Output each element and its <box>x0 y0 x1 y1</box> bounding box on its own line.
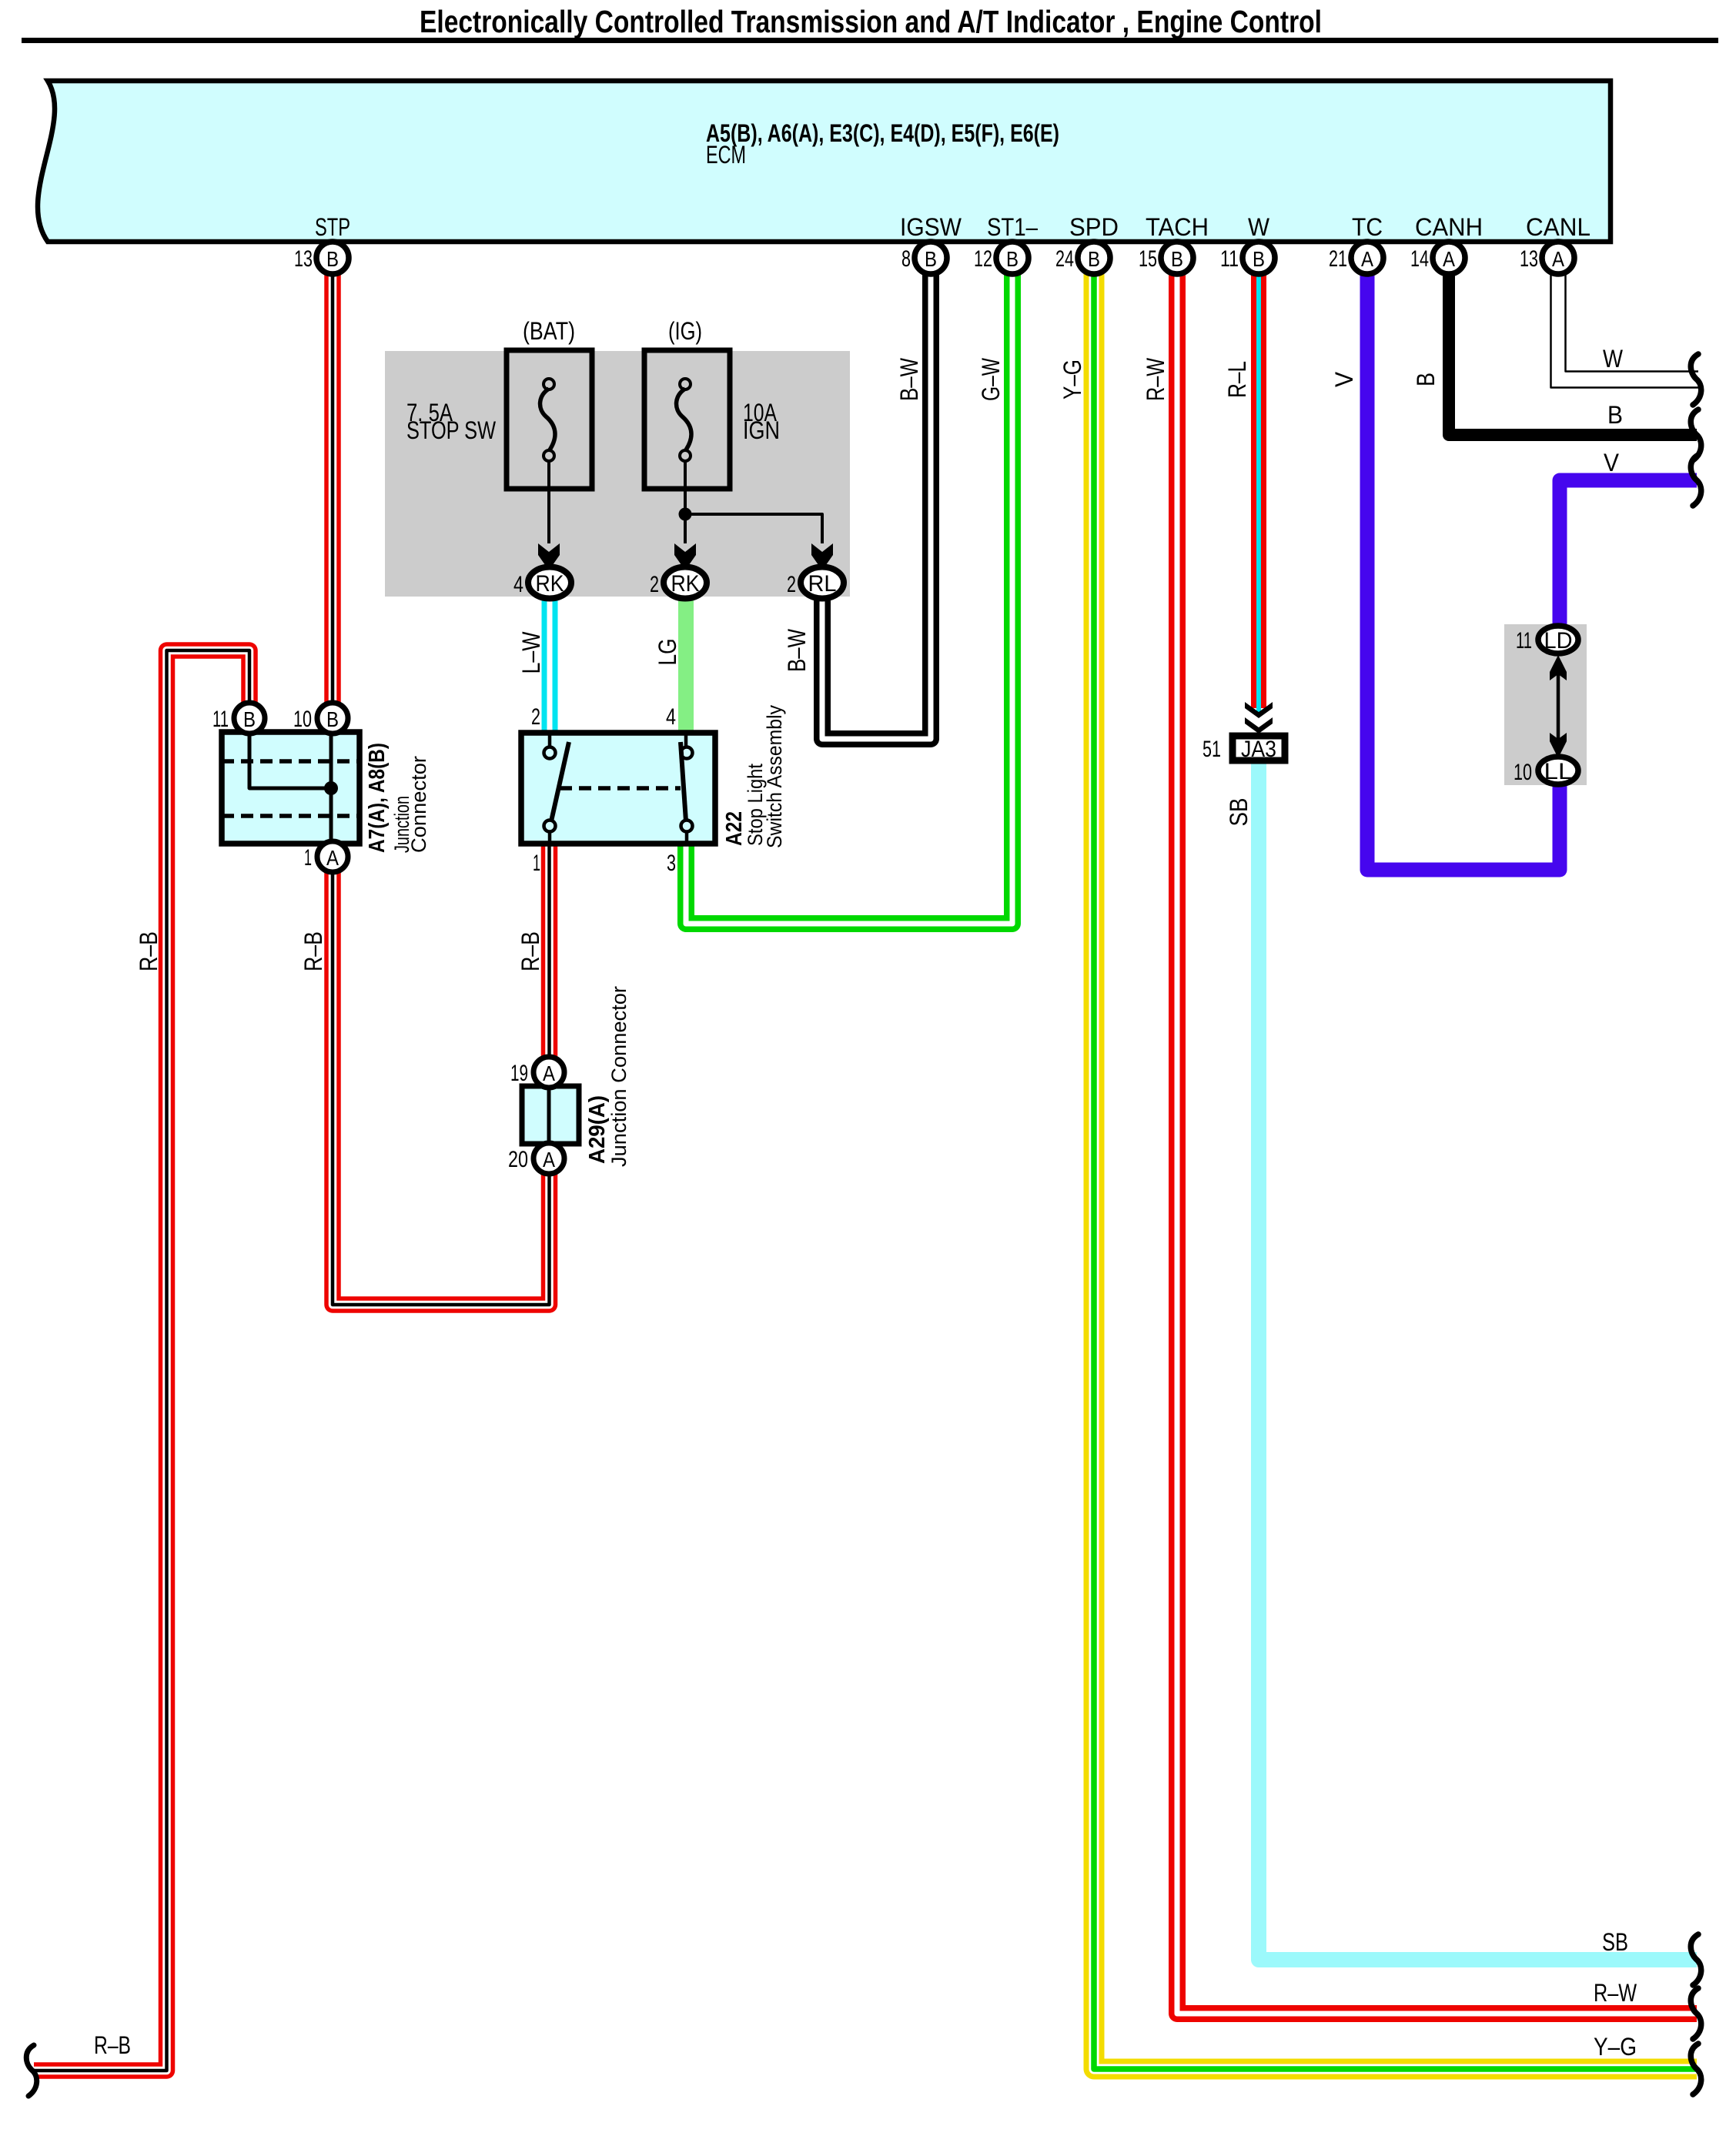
connector LL pin 10 <box>1538 757 1578 784</box>
wire V from connector LD to right edge <box>1560 480 1697 639</box>
svg-text:13: 13 <box>1520 246 1538 272</box>
wire R-L from ECM pin W to junction block JA3 <box>1251 266 1266 708</box>
svg-text:10: 10 <box>1514 760 1532 785</box>
wire G-W from ECM pin ST1- down and across to stop light switch pin 3 <box>686 266 1012 924</box>
svg-text:G–W: G–W <box>977 357 1005 401</box>
break symbol R-W <box>1691 1988 1701 2039</box>
svg-text:Y–G: Y–G <box>1594 2033 1637 2061</box>
title underline <box>22 38 1718 43</box>
svg-text:R–L: R–L <box>1223 361 1251 398</box>
svg-text:STOP SW: STOP SW <box>406 416 497 444</box>
svg-text:4: 4 <box>513 572 523 597</box>
svg-text:B: B <box>925 247 937 271</box>
double headed arrow between LD and LL <box>1557 670 1560 743</box>
svg-text:LD: LD <box>1544 628 1573 654</box>
fuse block background <box>385 351 850 597</box>
svg-text:ST1–: ST1– <box>987 213 1038 241</box>
break symbol left R-B <box>26 2045 36 2096</box>
stop light switch mechanical link <box>560 786 681 791</box>
junction connector pin 11 B <box>234 703 265 734</box>
svg-text:R–B: R–B <box>135 931 162 971</box>
svg-text:A: A <box>1552 247 1564 271</box>
svg-text:51: 51 <box>1202 737 1221 762</box>
svg-text:11: 11 <box>212 707 229 732</box>
svg-text:R–W: R–W <box>1142 357 1169 401</box>
svg-text:2: 2 <box>650 572 659 597</box>
break symbol V <box>1691 455 1701 506</box>
wire L-W from fuse connector RK to stop light switch pin 2 <box>542 583 558 733</box>
svg-text:B: B <box>326 247 339 271</box>
svg-text:TACH: TACH <box>1146 213 1209 241</box>
stop light switch left contact <box>548 733 552 747</box>
junction connector A7(A) A8(B) box <box>222 732 360 844</box>
svg-text:W: W <box>1248 213 1270 241</box>
svg-text:IGSW: IGSW <box>900 213 962 241</box>
svg-text:Connector: Connector <box>407 756 430 853</box>
ECM pin 15 TACH <box>1161 242 1193 274</box>
svg-text:20: 20 <box>508 1147 528 1172</box>
svg-text:(BAT): (BAT) <box>523 317 575 345</box>
stop light switch A22 box <box>521 733 715 844</box>
break symbol W <box>1691 354 1701 405</box>
svg-text:TC: TC <box>1352 213 1383 241</box>
wire R-B from junction connector pin 11 to left edge (long run) <box>34 650 249 2071</box>
svg-text:10: 10 <box>293 707 312 732</box>
svg-text:W: W <box>1603 345 1624 373</box>
svg-text:JA3: JA3 <box>1241 737 1276 762</box>
wire SB from junction block JA3 to right edge <box>1259 764 1697 1960</box>
connector LD pin 11 <box>1538 626 1578 654</box>
wire LG from fuse connector RK to stop light switch pin 4 <box>678 583 694 733</box>
svg-text:LG: LG <box>654 639 681 666</box>
junction connector A29 pin 20 A <box>534 1143 564 1174</box>
arrow into RK (IG) <box>674 543 696 570</box>
svg-text:Y–G: Y–G <box>1059 359 1086 399</box>
svg-text:B–W: B–W <box>895 357 923 401</box>
svg-text:B: B <box>1412 373 1440 386</box>
svg-text:B: B <box>1253 247 1265 271</box>
svg-text:V: V <box>1604 449 1620 476</box>
twisted pair chevrons above JA3 <box>1245 702 1273 718</box>
junction connector pin 1 A <box>317 841 348 872</box>
break symbol Y-G <box>1691 2044 1701 2094</box>
svg-text:R–W: R–W <box>1594 1979 1637 2007</box>
junction dot IG wire <box>679 508 692 521</box>
svg-text:R–B: R–B <box>94 2031 131 2059</box>
wire B-W from ECM pin IGSW down and across to fuse connector RL <box>822 266 931 739</box>
break symbol B <box>1691 409 1701 460</box>
svg-text:2: 2 <box>531 704 540 730</box>
svg-text:3: 3 <box>667 851 676 876</box>
wire fuse IG to connector RK and RL <box>684 461 687 543</box>
fuse 10A IGN <box>644 350 730 489</box>
wire R-B from ECM pin STP to junction connector pin 10 <box>324 266 341 718</box>
junction connector A29(A) box <box>522 1086 579 1144</box>
ECM pin 14 CANH <box>1433 242 1465 274</box>
svg-text:A5(B), A6(A), E3(C), E4(D), E5: A5(B), A6(A), E3(C), E4(D), E5(F), E6(E) <box>706 119 1059 147</box>
svg-text:STP: STP <box>315 213 350 241</box>
svg-text:14: 14 <box>1410 246 1429 272</box>
svg-text:R–B: R–B <box>299 931 327 971</box>
ECM pin 13 STP <box>316 242 349 274</box>
svg-text:ECM: ECM <box>706 141 746 169</box>
svg-text:A: A <box>326 846 339 870</box>
connector RK pin 2 <box>664 567 707 599</box>
ECM pin 13 CANL <box>1542 242 1574 274</box>
junction connector pin 10 B <box>317 703 348 734</box>
svg-text:B: B <box>1006 247 1019 271</box>
svg-text:A: A <box>1361 247 1373 271</box>
wire V from ECM pin TC to connector LL <box>1367 266 1560 870</box>
svg-text:B–W: B–W <box>783 628 811 672</box>
svg-text:11: 11 <box>1220 246 1239 272</box>
stop light switch right contact <box>684 733 688 747</box>
wire W from ECM pin CANL to right edge <box>1551 266 1699 388</box>
svg-text:(IG): (IG) <box>668 317 702 345</box>
break symbol SB <box>1691 1934 1701 1985</box>
svg-text:A29(A): A29(A) <box>585 1095 610 1164</box>
svg-text:A: A <box>543 1061 555 1085</box>
svg-text:24: 24 <box>1055 246 1074 272</box>
ECM pin 8 IGSW <box>915 242 947 274</box>
svg-text:V: V <box>1330 371 1358 387</box>
svg-text:1: 1 <box>304 845 312 871</box>
connector RK pin 4 <box>528 567 571 599</box>
connector RL pin 2 <box>801 567 844 599</box>
wire R-W from ECM pin TACH to right edge <box>1177 266 1697 2014</box>
svg-text:SB: SB <box>1225 798 1253 827</box>
svg-text:RK: RK <box>536 571 564 597</box>
svg-text:CANL: CANL <box>1526 213 1590 241</box>
arrow into RK (BAT) <box>538 543 560 570</box>
svg-text:Switch Assembly: Switch Assembly <box>763 705 786 848</box>
wire fuse BAT to connector RK <box>547 461 550 543</box>
svg-text:A: A <box>1443 247 1455 271</box>
wire Y-G from ECM pin SPD to right edge <box>1094 266 1697 2069</box>
svg-text:B: B <box>326 707 339 731</box>
ECM pin 11 W <box>1243 242 1275 274</box>
svg-text:1: 1 <box>533 851 540 876</box>
svg-text:A7(A), A8(B): A7(A), A8(B) <box>365 743 390 853</box>
svg-text:SPD: SPD <box>1069 213 1119 241</box>
svg-text:B: B <box>1088 247 1100 271</box>
ECM pin 12 ST1– <box>996 242 1029 274</box>
svg-text:19: 19 <box>510 1061 528 1086</box>
fuse 7.5A STOP SW <box>507 350 592 489</box>
svg-text:L–W: L–W <box>517 631 545 674</box>
wire R-B from stop light switch pin 1 to junction connector A29 pin 19 <box>541 844 558 1072</box>
svg-text:A: A <box>543 1148 555 1172</box>
svg-text:12: 12 <box>974 246 992 272</box>
arrow into RL <box>811 543 833 570</box>
svg-text:11: 11 <box>1516 628 1532 654</box>
svg-text:2: 2 <box>787 572 796 597</box>
svg-text:R–B: R–B <box>517 931 544 971</box>
junction block JA3 <box>1233 736 1285 760</box>
svg-text:13: 13 <box>294 246 313 272</box>
junction connector A7/A8 bus dashed lines <box>222 759 360 764</box>
ECM pin 24 SPD <box>1078 242 1110 274</box>
svg-text:Electronically Controlled Tran: Electronically Controlled Transmission a… <box>420 4 1322 39</box>
junction connector A7/A8 internal wiring <box>249 732 331 788</box>
svg-text:LL: LL <box>1544 759 1573 784</box>
svg-text:15: 15 <box>1139 246 1157 272</box>
svg-text:21: 21 <box>1329 246 1347 272</box>
svg-text:4: 4 <box>666 704 676 730</box>
shielding gray box LD LL <box>1504 624 1587 785</box>
svg-text:RK: RK <box>671 571 700 597</box>
wire B from ECM pin CANH to right edge <box>1449 266 1697 435</box>
svg-text:SB: SB <box>1602 1928 1628 1956</box>
junction connector A29 pin 19 A <box>534 1057 564 1088</box>
svg-text:B: B <box>1607 401 1623 429</box>
wire R-B from junction connector pin 1 down and across to junction connector A29 pin 20 <box>333 857 550 1305</box>
svg-text:RL: RL <box>808 571 837 597</box>
svg-text:Junction Connector: Junction Connector <box>607 986 631 1167</box>
ECM pin 21 TC <box>1351 242 1383 274</box>
ECM connector box A5(B) A6(A) E3(C) E4(D) E5(F) E6(E) <box>38 81 1611 242</box>
svg-text:IGN: IGN <box>743 416 780 444</box>
svg-text:CANH: CANH <box>1415 213 1483 241</box>
svg-text:B: B <box>243 707 256 731</box>
svg-text:B: B <box>1171 247 1183 271</box>
svg-text:8: 8 <box>901 246 911 272</box>
